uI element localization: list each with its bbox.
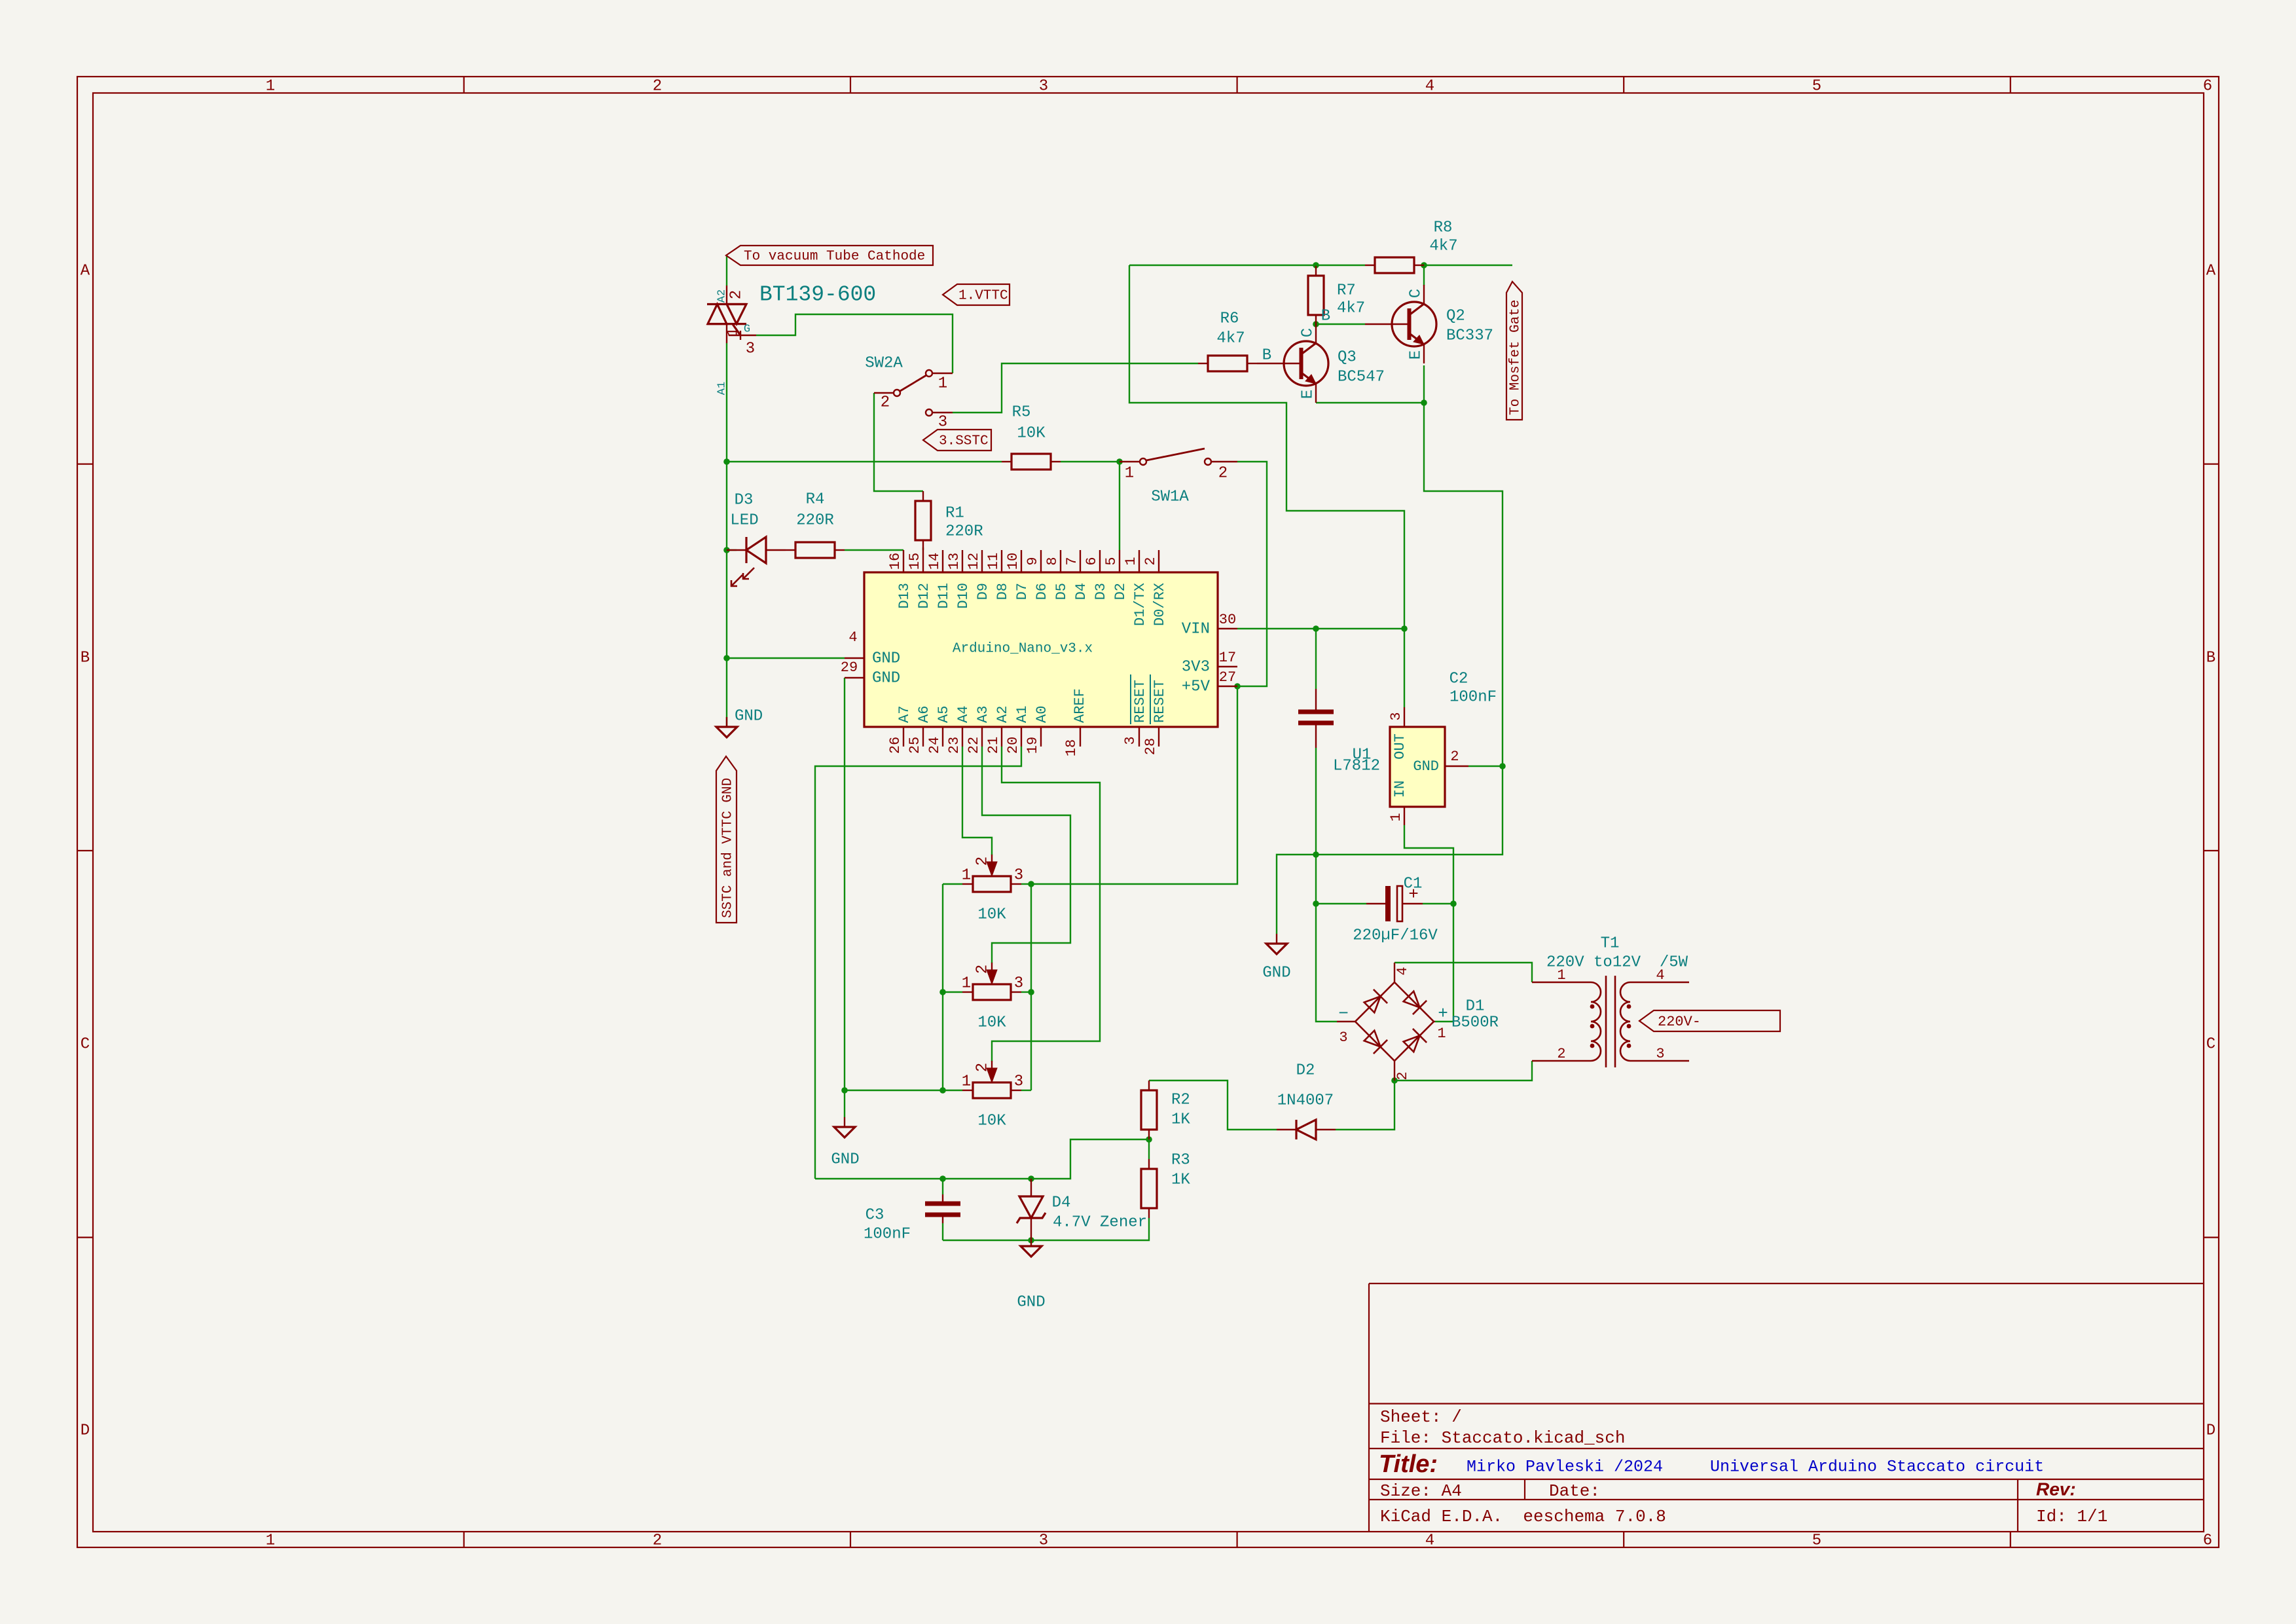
svg-text:100nF: 100nF xyxy=(864,1225,911,1243)
svg-text:D3: D3 xyxy=(735,491,754,509)
svg-text:8: 8 xyxy=(1044,557,1061,565)
svg-text:220R: 220R xyxy=(945,523,983,540)
svg-text:D1/TX: D1/TX xyxy=(1132,583,1148,626)
wire GND C2net stub xyxy=(1276,933,1277,934)
svg-text:D: D xyxy=(81,1422,90,1439)
Arduino pin 24 A5 xyxy=(942,727,943,747)
svg-text:2: 2 xyxy=(974,1063,991,1072)
svg-text:E: E xyxy=(1299,390,1317,399)
svg-text:+5V: +5V xyxy=(1182,678,1211,695)
Arduino pin 2 D0/RX xyxy=(1158,550,1159,572)
svg-text:D10: D10 xyxy=(955,583,972,609)
wire +5V down to pots rail xyxy=(1031,686,1237,884)
wire R1 bottom to pin15 xyxy=(922,547,924,550)
svg-text:L7812: L7812 xyxy=(1333,757,1380,775)
wire R4 to pin16 xyxy=(845,549,903,551)
Arduino pin 9 D6 xyxy=(1040,550,1042,572)
potentiometer RV2 10K xyxy=(962,991,973,993)
junction C1 right xyxy=(1450,900,1457,907)
svg-text:30: 30 xyxy=(1219,612,1236,628)
junction R2-R3 xyxy=(1146,1136,1152,1143)
svg-text:A1: A1 xyxy=(1014,706,1030,723)
wire SW2A pin2 to R1 top xyxy=(874,393,923,491)
ground GND D3 xyxy=(726,726,727,728)
svg-text:A3: A3 xyxy=(975,706,991,723)
Arduino pin 3 RESET xyxy=(1139,727,1140,747)
wire R2-R3 junction to sense rail xyxy=(815,1139,1149,1179)
svg-text:3: 3 xyxy=(1014,974,1023,992)
svg-text:4k7: 4k7 xyxy=(1429,237,1457,255)
svg-text:1: 1 xyxy=(266,77,275,95)
wire U1 GND pin to riser xyxy=(1468,766,1503,767)
resistor R8 xyxy=(1365,265,1375,266)
svg-text:A: A xyxy=(81,262,90,280)
transistor Q2 BC337 xyxy=(1392,302,1436,346)
wire VIN horizontal xyxy=(1237,628,1404,629)
svg-text:R7: R7 xyxy=(1337,282,1356,299)
wire pot3 pin3 xyxy=(1021,1090,1031,1091)
svg-text:Id: 1/1: Id: 1/1 xyxy=(2036,1507,2107,1526)
resistor R4 xyxy=(786,549,795,551)
svg-text:5: 5 xyxy=(1103,557,1120,565)
wire C2 bottom to bridge minus xyxy=(1316,748,1337,1022)
svg-text:2: 2 xyxy=(1394,1071,1411,1080)
junction U1 GND xyxy=(1499,763,1506,769)
regulator U1 L7812 xyxy=(1390,727,1445,807)
svg-text:R4: R4 xyxy=(806,490,825,508)
svg-text:1: 1 xyxy=(724,327,742,337)
junction bridge pin2 xyxy=(1391,1077,1398,1084)
svg-text:1: 1 xyxy=(1123,557,1139,565)
Arduino pin 12 D9 xyxy=(981,550,983,572)
label To Mosfet Gate xyxy=(1506,282,1522,420)
Arduino pin 30 VIN xyxy=(1218,628,1237,629)
capacitor C2 xyxy=(1315,689,1317,710)
wire GND4 pin to left bus xyxy=(727,657,845,659)
svg-text:23: 23 xyxy=(946,737,962,754)
svg-text:KiCad E.D.A. eeschema 7.0.8: KiCad E.D.A. eeschema 7.0.8 xyxy=(1380,1507,1666,1526)
svg-text:D1: D1 xyxy=(1466,997,1485,1015)
junction pot1 pin3 xyxy=(1028,881,1034,887)
svg-text:GND: GND xyxy=(872,650,900,667)
junction SW1A pin1 xyxy=(1116,458,1123,465)
junction C2 top xyxy=(1313,625,1319,632)
wire Q3 collector to Q2 base xyxy=(1316,323,1365,325)
svg-text:C: C xyxy=(1299,328,1317,337)
svg-text:R2: R2 xyxy=(1171,1091,1190,1109)
wire C1 left lead xyxy=(1316,903,1366,904)
junction triac-main wire xyxy=(723,458,730,465)
Arduino pin 10 D7 xyxy=(1021,550,1022,572)
svg-text:1: 1 xyxy=(962,974,971,992)
svg-text:10: 10 xyxy=(1005,553,1021,570)
Arduino pin 25 A6 xyxy=(922,727,924,747)
svg-text:GND: GND xyxy=(872,669,900,687)
svg-text:4k7: 4k7 xyxy=(1216,329,1245,347)
wire pots right rail xyxy=(1030,884,1032,1090)
Arduino pin 29 GND xyxy=(845,677,864,678)
wire bridge pin2 down to D2 xyxy=(1336,1080,1394,1130)
svg-text:To vacuum Tube Cathode: To vacuum Tube Cathode xyxy=(744,249,925,265)
svg-text:RESET: RESET xyxy=(1132,680,1148,723)
junction D4 top xyxy=(1028,1175,1034,1182)
svg-text:Sheet: /: Sheet: / xyxy=(1380,1407,1462,1427)
svg-text:1: 1 xyxy=(1437,1025,1446,1042)
wire R2 bottom to R3 top xyxy=(1148,1139,1150,1159)
svg-text:20: 20 xyxy=(1005,737,1021,754)
svg-text:D7: D7 xyxy=(1014,583,1030,600)
svg-text:B: B xyxy=(2206,649,2215,667)
svg-text:C: C xyxy=(1407,289,1425,298)
svg-text:1: 1 xyxy=(962,866,971,884)
Arduino pin 7 D4 xyxy=(1080,550,1081,572)
svg-text:1: 1 xyxy=(266,1532,275,1549)
svg-text:R5: R5 xyxy=(1012,403,1031,421)
svg-text:220V to12V /5W: 220V to12V /5W xyxy=(1546,953,1688,971)
svg-text:A5: A5 xyxy=(936,706,952,723)
svg-text:D12: D12 xyxy=(916,583,932,609)
svg-text:3V3: 3V3 xyxy=(1182,658,1210,676)
wire emitters to U1 GND net xyxy=(1277,403,1503,933)
transformer T1 xyxy=(1532,982,1591,983)
svg-text:3: 3 xyxy=(1122,736,1139,745)
svg-text:D13: D13 xyxy=(896,583,913,609)
wire triac A2 to label xyxy=(726,255,727,286)
wire C3 bottom lead xyxy=(942,1223,943,1240)
svg-text:E: E xyxy=(1407,350,1425,360)
svg-text:1: 1 xyxy=(1125,464,1134,482)
svg-text:R8: R8 xyxy=(1434,219,1453,236)
transistor Q3 BC547 xyxy=(1284,341,1328,386)
svg-text:Mirko Pavleski /2024: Mirko Pavleski /2024 xyxy=(1467,1458,1663,1477)
wire triac gate to SW2A pin1 xyxy=(756,314,953,373)
svg-text:SW2A: SW2A xyxy=(865,354,903,372)
triac BT139-600 xyxy=(726,286,727,304)
svg-text:7: 7 xyxy=(1064,557,1080,565)
wire GND29 symbol stub xyxy=(844,1090,845,1117)
Arduino pin 6 D3 xyxy=(1099,550,1101,572)
wire pot2 pin1 xyxy=(943,991,962,993)
svg-text:B: B xyxy=(81,649,90,667)
Arduino pin 5 D2 xyxy=(1119,550,1120,572)
svg-text:3: 3 xyxy=(1039,1532,1048,1549)
svg-text:100nF: 100nF xyxy=(1449,688,1497,706)
svg-text:SW1A: SW1A xyxy=(1151,488,1189,506)
svg-text:B: B xyxy=(1321,307,1330,325)
svg-text:18: 18 xyxy=(1063,739,1080,756)
svg-text:SSTC and VTTC GND: SSTC and VTTC GND xyxy=(721,778,736,918)
svg-text:Date:: Date: xyxy=(1549,1481,1600,1501)
resistor R3 xyxy=(1148,1159,1150,1169)
svg-text:Title:: Title: xyxy=(1379,1450,1438,1478)
svg-text:27: 27 xyxy=(1219,669,1236,686)
svg-text:4: 4 xyxy=(1425,1532,1434,1549)
svg-text:21: 21 xyxy=(985,737,1002,754)
potentiometer RV3 10K xyxy=(962,1090,973,1091)
svg-text:RESET: RESET xyxy=(1152,680,1168,723)
svg-text:10K: 10K xyxy=(977,1014,1006,1031)
svg-text:3.SSTC: 3.SSTC xyxy=(939,434,989,449)
svg-text:D4: D4 xyxy=(1073,583,1089,600)
wire 12V rail down to VIN xyxy=(1129,265,1404,707)
wire pin20 A1 to sense rail xyxy=(815,747,1021,1179)
wire pot1 pin1 xyxy=(943,883,962,885)
Arduino pin 26 A7 xyxy=(903,727,904,747)
wire C3 top lead xyxy=(942,1179,943,1194)
svg-text:10K: 10K xyxy=(977,1112,1006,1130)
svg-text:16: 16 xyxy=(887,553,903,570)
svg-text:OUT: OUT xyxy=(1392,733,1408,760)
svg-text:A6: A6 xyxy=(916,706,932,723)
svg-text:LED: LED xyxy=(730,511,758,529)
svg-text:4.7V Zener: 4.7V Zener xyxy=(1053,1213,1147,1231)
wire Q2 collector stub xyxy=(1423,265,1425,286)
svg-text:R3: R3 xyxy=(1171,1151,1190,1169)
label 1.VTTC xyxy=(943,284,1010,305)
junction Q3 collector R7 bottom xyxy=(1313,321,1319,327)
svg-text:A1: A1 xyxy=(716,382,728,395)
svg-text:26: 26 xyxy=(887,737,903,754)
svg-text:28: 28 xyxy=(1142,738,1159,755)
wire SW2A pin3 to R6 xyxy=(953,363,1198,413)
svg-text:1K: 1K xyxy=(1171,1171,1190,1189)
Arduino pin 1 D1/TX xyxy=(1139,550,1140,572)
svg-text:6: 6 xyxy=(2203,77,2212,95)
wire C2 top lead xyxy=(1315,629,1317,689)
svg-text:5: 5 xyxy=(1812,77,1821,95)
svg-text:2: 2 xyxy=(653,77,662,95)
svg-text:D2: D2 xyxy=(1296,1061,1315,1079)
svg-text:Q2: Q2 xyxy=(1446,307,1465,325)
Arduino pin 4 GND xyxy=(845,657,864,659)
svg-text:D0/RX: D0/RX xyxy=(1152,583,1168,626)
svg-text:3: 3 xyxy=(938,413,947,431)
wire SW1A junction to pin5 xyxy=(1119,462,1120,550)
svg-text:Rev:: Rev: xyxy=(2036,1479,2076,1499)
label SSTC and VTTC GND xyxy=(716,756,737,923)
svg-text:3: 3 xyxy=(1039,77,1048,95)
junction +5V pin27 xyxy=(1234,683,1241,690)
svg-text:4k7: 4k7 xyxy=(1337,299,1365,317)
frame row ticks xyxy=(77,463,93,464)
svg-text:GND: GND xyxy=(735,707,763,725)
svg-text:2: 2 xyxy=(1450,748,1459,765)
Arduino pin 8 D5 xyxy=(1060,550,1061,572)
svg-text:BT139-600: BT139-600 xyxy=(759,283,876,307)
svg-text:4: 4 xyxy=(1394,967,1411,975)
svg-text:C2: C2 xyxy=(1449,670,1468,688)
svg-text:3: 3 xyxy=(1339,1029,1347,1046)
Arduino pin 23 A4 xyxy=(962,727,963,747)
svg-text:A: A xyxy=(2206,262,2216,280)
svg-text:To Mosfet Gate: To Mosfet Gate xyxy=(1508,300,1523,415)
svg-text:14: 14 xyxy=(926,553,943,570)
svg-text:A7: A7 xyxy=(896,706,913,723)
svg-text:29: 29 xyxy=(841,659,858,676)
wire bridge pin2 to T1 pin2 xyxy=(1394,1061,1532,1080)
capacitor C3 xyxy=(925,1202,960,1206)
wire D2 cathode to R2 jog xyxy=(1149,1080,1277,1130)
svg-text:BC547: BC547 xyxy=(1338,368,1385,386)
junction R7 top xyxy=(1313,262,1319,268)
svg-text:220R: 220R xyxy=(796,511,834,529)
wire R5 to SW1A xyxy=(1061,461,1120,462)
svg-text:D6: D6 xyxy=(1034,583,1050,600)
wire GND29 to pots rail xyxy=(845,678,962,1090)
svg-text:C: C xyxy=(81,1035,90,1053)
wire pin21 A2 to pot3 wiper xyxy=(992,747,1100,1061)
wire C1 right lead xyxy=(1423,903,1453,904)
wire pin22 A3 to pot2 wiper xyxy=(982,747,1070,963)
svg-text:GND: GND xyxy=(831,1151,859,1168)
svg-text:B500R: B500R xyxy=(1451,1014,1499,1031)
Arduino pin 19 A0 xyxy=(1040,727,1042,747)
Arduino pin 20 A1 xyxy=(1021,727,1022,747)
junction pots GND xyxy=(841,1087,848,1094)
svg-text:1: 1 xyxy=(1388,813,1404,821)
svg-text:11: 11 xyxy=(985,553,1002,570)
Arduino pin 21 A2 xyxy=(1001,727,1002,747)
svg-text:2: 2 xyxy=(1557,1046,1565,1062)
switch SW1A xyxy=(1120,461,1139,462)
capacitor C1 polarized xyxy=(1366,903,1385,904)
wire Q2 emitter down xyxy=(1423,365,1425,403)
junction emitters xyxy=(1421,399,1427,406)
svg-text:220µF/16V: 220µF/16V xyxy=(1353,927,1438,944)
svg-text:13: 13 xyxy=(946,553,962,570)
svg-text:22: 22 xyxy=(966,737,982,754)
svg-text:5: 5 xyxy=(1812,1532,1821,1549)
svg-text:1.VTTC: 1.VTTC xyxy=(958,289,1008,304)
junction VIN xyxy=(1401,625,1408,632)
svg-text:A2: A2 xyxy=(994,706,1011,723)
svg-text:C3: C3 xyxy=(866,1206,884,1224)
Arduino Nano U-module body xyxy=(864,572,1218,727)
Arduino pin 17 3V3 xyxy=(1218,666,1237,667)
Arduino pin 13 D10 xyxy=(962,550,963,572)
Arduino pin 28 RESET xyxy=(1158,727,1159,747)
junction pot2 pin3 xyxy=(1028,989,1034,995)
title block frame xyxy=(1368,1283,1370,1532)
junction C3 top xyxy=(939,1175,946,1182)
wire pot2 pin3 xyxy=(1021,991,1031,993)
junction GND pin4 wire xyxy=(723,655,730,661)
wire pot1 pin3 xyxy=(1021,883,1031,885)
svg-text:1N4007: 1N4007 xyxy=(1277,1092,1334,1109)
svg-text:220V-: 220V- xyxy=(1658,1014,1701,1030)
svg-text:D2: D2 xyxy=(1112,583,1129,600)
junction C2 GND rail xyxy=(1313,851,1319,858)
label 3.SSTC xyxy=(923,430,991,451)
potentiometer RV1 10K xyxy=(962,883,973,885)
Arduino pin 15 D12 xyxy=(922,550,924,572)
wire U1 IN to C1 plus to bridge plus xyxy=(1404,825,1453,1022)
wire D3 cathode junction xyxy=(727,549,737,551)
label 220V- xyxy=(1639,1010,1780,1031)
svg-text:1: 1 xyxy=(938,375,947,392)
svg-text:T1: T1 xyxy=(1601,934,1620,952)
svg-text:C: C xyxy=(2206,1035,2215,1053)
svg-text:D4: D4 xyxy=(1052,1194,1071,1211)
label To vacuum Tube Cathode xyxy=(726,246,933,265)
zener diode D4 xyxy=(1030,1179,1032,1196)
svg-text:Size: A4: Size: A4 xyxy=(1380,1481,1462,1501)
svg-text:12: 12 xyxy=(966,553,982,570)
wire Q3 emitter to Q2 emitter xyxy=(1316,402,1424,403)
bridge rectifier D1 B500R xyxy=(1355,982,1434,1061)
svg-text:19: 19 xyxy=(1025,737,1041,754)
svg-text:2: 2 xyxy=(1142,557,1159,565)
junction D4 bottom GND xyxy=(1028,1237,1034,1244)
svg-text:2: 2 xyxy=(974,965,991,974)
svg-text:A4: A4 xyxy=(955,706,972,723)
Arduino pin 27 +5V xyxy=(1218,686,1237,687)
svg-text:A2: A2 xyxy=(716,289,728,303)
svg-text:2: 2 xyxy=(1218,464,1228,482)
frame column ticks xyxy=(463,77,464,93)
svg-text:4: 4 xyxy=(848,629,857,646)
svg-text:R1: R1 xyxy=(945,504,964,522)
svg-text:D: D xyxy=(2206,1422,2215,1439)
svg-text:R6: R6 xyxy=(1220,310,1239,327)
junction pot3 pin1 rail xyxy=(939,1087,946,1094)
svg-text:GND: GND xyxy=(1017,1293,1045,1311)
svg-text:3: 3 xyxy=(1014,1073,1023,1090)
svg-text:17: 17 xyxy=(1219,650,1236,666)
svg-text:Arduino_Nano_v3.x: Arduino_Nano_v3.x xyxy=(953,642,1093,657)
svg-text:Q3: Q3 xyxy=(1338,348,1357,366)
svg-text:6: 6 xyxy=(2203,1532,2212,1549)
svg-text:G: G xyxy=(744,323,750,335)
junction C1 left xyxy=(1313,900,1319,907)
svg-text:9: 9 xyxy=(1025,557,1041,565)
svg-text:10K: 10K xyxy=(977,906,1006,923)
svg-text:15: 15 xyxy=(907,553,923,570)
resistor R2 xyxy=(1148,1080,1150,1090)
diode D2 1N4007 xyxy=(1277,1129,1296,1130)
svg-text:B: B xyxy=(1262,346,1271,364)
svg-text:IN: IN xyxy=(1392,781,1408,798)
ground GND C2net xyxy=(1276,934,1277,944)
svg-text:2: 2 xyxy=(881,394,890,411)
svg-text:3: 3 xyxy=(1388,712,1404,720)
ground GND D4 xyxy=(1030,1240,1032,1246)
Arduino pin 22 A3 xyxy=(981,727,983,747)
wire bridge pin4 to T1 pin1 xyxy=(1394,963,1532,982)
svg-text:2: 2 xyxy=(727,290,745,299)
switch SW2A xyxy=(933,373,953,374)
svg-text:−: − xyxy=(1338,1004,1349,1024)
svg-text:Universal Arduino Staccato cir: Universal Arduino Staccato circuit xyxy=(1710,1458,2044,1477)
svg-text:D5: D5 xyxy=(1053,583,1070,600)
svg-text:24: 24 xyxy=(926,737,943,754)
svg-text:AREF: AREF xyxy=(1072,688,1088,723)
svg-text:File: Staccato.kicad_sch: File: Staccato.kicad_sch xyxy=(1380,1428,1625,1448)
svg-text:D9: D9 xyxy=(975,583,991,600)
wire R3 bottom to GND rail xyxy=(943,1218,1149,1240)
junction R8-Q2 collector xyxy=(1421,262,1427,268)
Arduino pin 18 AREF xyxy=(1080,727,1081,747)
svg-text:2: 2 xyxy=(974,857,991,866)
svg-text:GND: GND xyxy=(1413,758,1439,775)
svg-text:VIN: VIN xyxy=(1182,620,1210,638)
resistor R1 xyxy=(922,491,924,501)
svg-text:+: + xyxy=(1438,1004,1448,1024)
wire SW1A pin2 to +5V riser xyxy=(1237,462,1267,686)
Arduino pin 11 D8 xyxy=(1001,550,1002,572)
wire triac A1 down / left GND bus xyxy=(726,343,727,727)
resistor R6 xyxy=(1198,363,1208,364)
